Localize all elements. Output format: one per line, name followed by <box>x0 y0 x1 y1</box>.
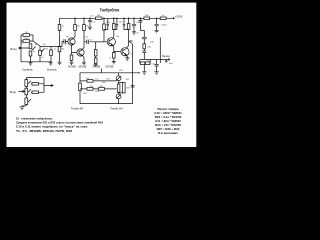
text labels <box>10 7 183 110</box>
resistor R15 (T3 emitter) <box>113 53 116 59</box>
potentiometer R21 <box>116 76 121 81</box>
svg-text:R23: R23 <box>100 86 103 88</box>
resistor R19 <box>143 44 146 49</box>
wire +20V top rail <box>60 17 175 19</box>
resistor R2 <box>23 40 30 43</box>
capacitor C4 <box>104 18 109 29</box>
svg-text:+20 В: +20 В <box>175 15 183 19</box>
tone loop bottom wire <box>80 103 133 105</box>
resistor R20 <box>140 62 145 65</box>
svg-text:МП39Б: МП39Б <box>79 66 87 68</box>
capacitor C3 coupling <box>84 40 107 44</box>
capacitor C14 electrolytic <box>155 18 159 30</box>
parallel RC below output <box>140 60 150 64</box>
border frame right <box>196 0 199 150</box>
capacitor C6 <box>123 18 129 29</box>
wire output arrow <box>168 59 170 61</box>
svg-text:R26: R26 <box>126 88 129 90</box>
potentiometer R1b <box>25 80 28 87</box>
resistor R23 <box>99 88 105 91</box>
svg-text:С10: С10 <box>86 78 89 80</box>
potentiometer R3b <box>25 98 28 105</box>
node rail junction dots <box>75 17 157 19</box>
wire T4 collector <box>126 30 128 49</box>
formulas text bottom right <box>154 107 182 135</box>
svg-text:С13: С13 <box>151 64 154 66</box>
capacitor C15 decoupling <box>88 18 92 27</box>
svg-text:12к: 12к <box>86 26 89 28</box>
resistor R7 (rail to base) <box>59 18 61 41</box>
transistor T2 <box>77 49 84 56</box>
capacitor C8 (rail drop to HF net) <box>139 18 143 30</box>
svg-text:1к: 1к <box>162 15 164 17</box>
capacitor C12 <box>145 62 150 65</box>
ground gnd7 <box>125 58 129 61</box>
svg-text:Темброблок: Темброблок <box>100 7 120 12</box>
potentiometer R4 balance <box>40 46 51 62</box>
wire input 1 <box>18 47 30 49</box>
wire T1 emitter to T2 base <box>72 45 78 55</box>
resistor R11 <box>83 25 86 31</box>
svg-text:Вых: Вых <box>169 63 173 65</box>
svg-text:R21: R21 <box>119 70 122 72</box>
wire +20V arrow end <box>173 18 175 19</box>
resistor R13 divider lower <box>96 42 104 64</box>
resistor R5b <box>31 91 44 93</box>
ground gnd5 <box>94 64 98 67</box>
svg-text:С3: С3 <box>90 40 92 42</box>
svg-text:1,8к: 1,8к <box>150 42 154 44</box>
terminal aux <box>166 61 168 63</box>
svg-text:1к: 1к <box>54 48 56 50</box>
svg-text:47к: 47к <box>43 44 46 46</box>
resistor R14 <box>113 24 116 30</box>
svg-text:1М: 1М <box>25 32 28 34</box>
svg-text:Тембр ВЧ: Тембр ВЧ <box>71 106 84 110</box>
wire HF filter drop <box>141 31 147 60</box>
resistor R17 300 (in-rail) <box>144 17 150 20</box>
potentiometer R3 level <box>30 44 32 62</box>
svg-text:0,25: 0,25 <box>84 37 88 39</box>
svg-text:Т1...Т4 - МП39Б, МП103, П27Б,: Т1...Т4 - МП39Б, МП103, П27Б, П28 <box>16 129 72 133</box>
svg-text:5к: 5к <box>42 57 44 59</box>
tone loop left wire <box>79 73 81 104</box>
node dot loop-HF <box>138 72 140 74</box>
capacitor C10 <box>87 80 93 83</box>
svg-text:Вход: Вход <box>11 47 18 51</box>
svg-text:1к: 1к <box>147 60 149 62</box>
wire T2 collector <box>82 31 84 50</box>
svg-text:200,0: 200,0 <box>162 24 168 26</box>
svg-text:4,3к: 4,3к <box>106 22 110 24</box>
capacitor C13 <box>155 60 159 72</box>
wire LF branch upper <box>80 80 117 82</box>
capacitor C7 electrolytic <box>132 18 136 31</box>
wire ch2 arrow <box>51 85 53 87</box>
resistor R10 (T1 emitter) <box>70 55 73 60</box>
resistor R25 <box>79 83 82 91</box>
ground gnd15 <box>58 62 62 65</box>
svg-text:56к: 56к <box>103 82 106 84</box>
resistor R16 <box>127 24 130 30</box>
resistor R22 mid <box>117 84 120 92</box>
svg-text:5,6к: 5,6к <box>95 78 99 80</box>
note text bottom left <box>16 116 104 132</box>
wire LF branch lower <box>80 88 117 90</box>
svg-text:5,0: 5,0 <box>92 22 95 24</box>
resistor R5 (in-rail) <box>96 17 103 20</box>
wire T2 emitter <box>82 55 84 62</box>
resistor R18 1k (in-rail) <box>160 17 166 20</box>
wire T3 emitter to T4 base <box>113 45 121 53</box>
wire base T1 <box>51 42 68 47</box>
svg-text:Тембр НЧ: Тембр НЧ <box>110 106 123 110</box>
resistor R6 <box>50 47 52 62</box>
wire T4 emitter <box>126 55 127 58</box>
ground gnd2 <box>49 62 53 65</box>
transistor T1 <box>68 38 75 45</box>
svg-text:12к: 12к <box>116 36 119 38</box>
resistor R4b <box>31 83 44 85</box>
input 2 wire <box>19 91 25 93</box>
svg-text:1к: 1к <box>62 26 64 28</box>
resistor R7b bias lower <box>59 42 61 62</box>
svg-text:С7: С7 <box>130 54 132 56</box>
border frame top <box>0 0 199 3</box>
ground gnd11 <box>154 71 158 74</box>
potentiometer R2b <box>25 88 28 95</box>
svg-text:R22: R22 <box>106 79 109 81</box>
svg-text:330к: 330к <box>24 38 28 40</box>
svg-text:R24: R24 <box>83 93 86 95</box>
ground gnd4 <box>82 62 86 65</box>
ground gnd6 <box>112 61 116 64</box>
svg-text:Выход: Выход <box>162 55 170 58</box>
resistor R8 <box>74 25 77 31</box>
svg-text:Вход: Вход <box>10 90 17 94</box>
svg-text:R21: R21 <box>126 79 129 81</box>
resistor R12 divider upper <box>103 18 105 42</box>
svg-text:5к: 5к <box>33 51 35 53</box>
ground gnd10 <box>142 71 146 74</box>
tone loop top wire <box>80 72 139 74</box>
potentiometer chain ch2 <box>26 78 44 106</box>
svg-text:МП39Б: МП39Б <box>106 66 114 68</box>
wire to gnd under R20 <box>143 65 145 72</box>
capacitor C11 <box>87 88 93 91</box>
wire output collector down <box>129 41 133 104</box>
ground gnd9 <box>154 30 158 33</box>
border frame bottom <box>0 147 199 150</box>
potentiometer R24 <box>116 94 121 99</box>
svg-text:Баланс: Баланс <box>47 68 57 72</box>
capacitor C9 on right edge <box>131 85 135 87</box>
svg-text:R4: R4 <box>45 48 47 50</box>
svg-text:12к: 12к <box>77 26 80 28</box>
wire ground bus left <box>21 48 52 62</box>
svg-text:82н: 82н <box>90 86 93 88</box>
svg-text:R9: R9 <box>66 37 68 39</box>
resistor R26 bracket <box>119 83 124 93</box>
capacitor C1 <box>64 39 66 43</box>
ground gnd8 <box>132 32 136 35</box>
capacitor C5 <box>114 18 118 29</box>
wire ch2 out <box>44 78 52 93</box>
ground gnd1 <box>29 62 33 65</box>
wire ch2 gnd <box>22 105 26 108</box>
node rail dot x90 <box>89 17 91 19</box>
resistor R1 1M <box>23 34 30 37</box>
wire right vertical <box>159 38 161 64</box>
svg-text:R3: R3 <box>35 44 37 46</box>
potentiometer R21 chain <box>118 73 120 104</box>
transistor T4 <box>121 48 129 56</box>
transistor T3 <box>107 38 115 46</box>
ground gnd13 <box>20 106 25 109</box>
svg-text:С8: С8 <box>136 32 138 34</box>
feedback wire to tone nets <box>101 69 103 73</box>
svg-text:С2: С2 <box>65 44 67 46</box>
ground gnd3 <box>70 62 74 65</box>
wire R1 divider loop <box>21 35 40 48</box>
svg-text:R1: R1 <box>21 43 23 45</box>
svg-text:240: 240 <box>61 48 64 50</box>
wire T3 collector <box>113 30 114 39</box>
svg-text:МП39Б: МП39Б <box>93 66 101 68</box>
border frame left <box>0 0 7 150</box>
wire output line <box>140 59 170 61</box>
wire T1 collector <box>73 31 75 39</box>
svg-text:МП39Б: МП39Б <box>68 66 76 68</box>
ground gnd14 <box>88 27 92 30</box>
svg-text:2200: 2200 <box>95 91 99 93</box>
svg-text:R в килоомах: R в килоомах <box>158 131 178 135</box>
svg-text:1к: 1к <box>109 58 111 60</box>
svg-text:Уровень: Уровень <box>22 68 33 72</box>
